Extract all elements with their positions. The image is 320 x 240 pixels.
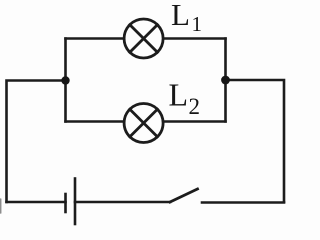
switch S1 (open blade)	[170, 189, 198, 202]
wire bottom-right (switch contact to right corner)	[202, 201, 284, 204]
wire bottom-left (to battery)	[7, 201, 66, 204]
lamp L2	[124, 104, 163, 143]
battery B1	[66, 179, 76, 225]
wire inner-left vertical	[64, 39, 67, 122]
wire left outer (junction to left edge, down)	[7, 81, 66, 203]
node junction right	[221, 76, 230, 85]
wire right outer (junction to right edge, down)	[226, 80, 285, 202]
wire inner-right vertical	[224, 39, 227, 122]
wire top branch	[66, 37, 226, 40]
wire battery to switch	[75, 201, 170, 204]
lamp L1	[124, 19, 163, 58]
node junction left	[61, 76, 69, 84]
wire middle branch	[66, 120, 226, 123]
